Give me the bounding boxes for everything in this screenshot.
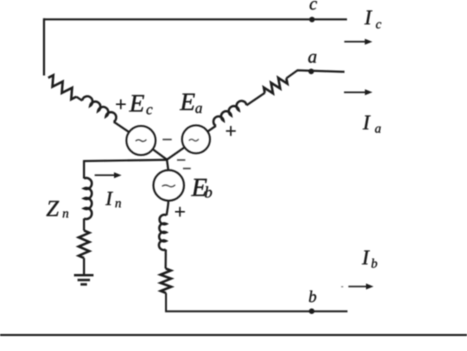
inductor (phase a line impedance) xyxy=(213,101,246,126)
polarity minus between E_c and E_a xyxy=(163,139,172,141)
resistor (part of Z_n) xyxy=(79,231,90,259)
ground symbol xyxy=(74,275,94,284)
wire from E_b bottom, slight jog xyxy=(167,201,169,216)
resistor (phase c line impedance) xyxy=(48,75,76,99)
wire from E_a to inductor, phase a xyxy=(208,126,216,132)
wire from Z_n resistor to ground xyxy=(83,258,85,275)
node a (terminal dot) xyxy=(308,69,314,75)
wire junction to E_b xyxy=(167,160,168,171)
label: I_c xyxy=(364,11,372,25)
bottom horizontal rule (figure separator) xyxy=(0,334,467,336)
wire from E_c to neutral junction xyxy=(153,149,167,159)
polarity minus near junction (E_a side) xyxy=(177,159,185,161)
wire: Z_n branch vertical top xyxy=(83,160,85,178)
arrow: current I_n xyxy=(95,174,116,176)
label: E_a xyxy=(180,94,195,110)
arrow: current I_c xyxy=(344,41,366,43)
node: neutral junction xyxy=(166,158,168,160)
wire: neutral horizontal to Z_n xyxy=(84,160,167,161)
voltage source E_b (circle with ~) xyxy=(153,170,184,201)
label: + of E_b xyxy=(175,207,184,216)
label: E_b xyxy=(191,179,207,196)
wire between inductor and resistor, phase a xyxy=(247,93,265,105)
resistor (phase a line impedance) xyxy=(264,78,288,94)
inductor (part of Z_n) xyxy=(84,178,92,219)
polarity minus near E_b top xyxy=(183,168,191,170)
resistor (phase b) xyxy=(160,269,171,294)
label: I_n xyxy=(106,192,114,205)
wire from phase b resistor down to bottom line xyxy=(166,293,348,311)
label: terminal a xyxy=(308,54,316,63)
wire: top line from left corner to phase c terminal xyxy=(44,18,347,20)
label: I_a xyxy=(363,116,371,130)
wire between resistor and inductor, phase c xyxy=(76,97,82,101)
node c (terminal dot) xyxy=(309,17,315,23)
node b (terminal dot) xyxy=(309,308,315,314)
wire from inductor to source E_c xyxy=(114,122,129,132)
label: terminal c xyxy=(310,1,317,10)
wire from E_a to neutral junction xyxy=(167,147,185,159)
label: + of phase a xyxy=(226,126,235,135)
inductor (phase b / source internal) xyxy=(159,215,167,250)
wire between Z_n inductor and resistor xyxy=(83,219,85,231)
inductor (phase c line impedance) xyxy=(82,96,116,122)
label: I_b xyxy=(362,251,370,265)
voltage source E_c (circle with ~) xyxy=(126,126,155,155)
voltage source E_a (circle with ~) xyxy=(182,125,210,153)
arrow: current I_b (with faint dash) xyxy=(341,286,343,288)
arrow: current I_a xyxy=(344,91,366,93)
label: E_c with + xyxy=(116,100,125,109)
label: terminal b xyxy=(309,291,316,303)
wire between phase b inductor and resistor xyxy=(165,250,167,269)
wire: left vertical segment xyxy=(43,18,45,75)
label: Z_n xyxy=(46,201,59,216)
wire elbow to phase a terminal xyxy=(286,70,344,78)
